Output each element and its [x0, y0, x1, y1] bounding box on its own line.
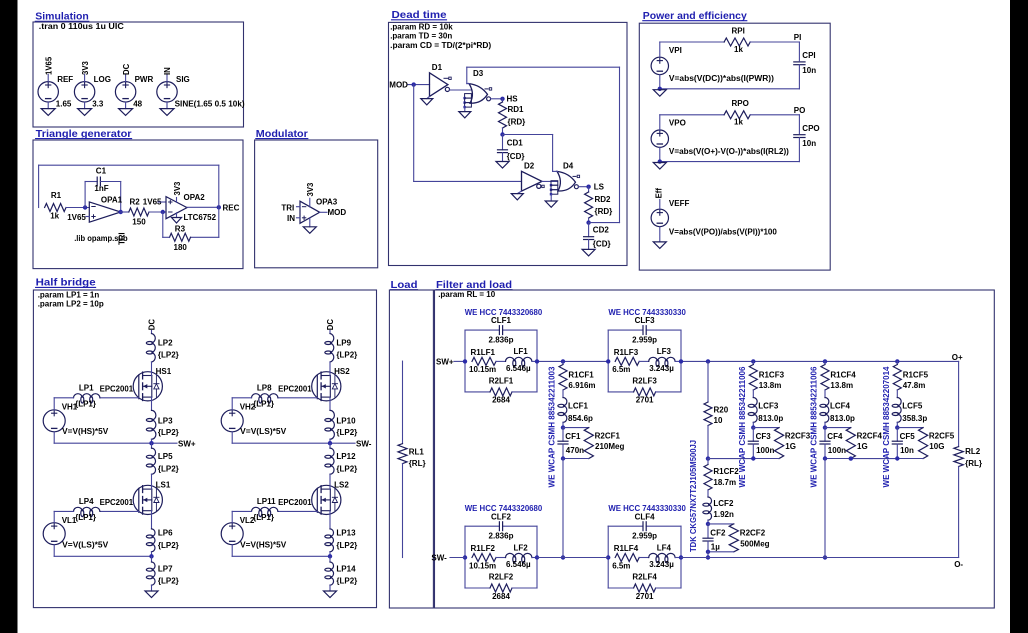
svg-text:VL2: VL2 [240, 516, 255, 525]
part number WE HCC 7443330330 for CLF4 [608, 504, 686, 513]
svg-text:V=abs(V(PO))/abs(V(PI))*100: V=abs(V(PO))/abs(V(PI))*100 [669, 228, 778, 237]
ground of D3 [459, 107, 471, 118]
svg-text:2.836p: 2.836p [489, 336, 514, 345]
svg-text:HS2: HS2 [334, 367, 350, 376]
wire D4 output to LS [578, 186, 588, 188]
directive .param TD [390, 31, 452, 40]
svg-text:.param LP2 = 10p: .param LP2 = 10p [38, 299, 104, 308]
svg-text:10G: 10G [929, 442, 944, 451]
inductor LP12 [325, 443, 358, 485]
inductor LCF5 [892, 390, 927, 423]
directive .param LP2 [38, 299, 104, 308]
node CF5 pair top [895, 422, 923, 430]
svg-text:R3: R3 [175, 225, 186, 234]
svg-text:1.92n: 1.92n [713, 510, 734, 519]
section title Half bridge [36, 278, 96, 289]
part number WE WCAP CSMH 885342207014 at CF5 [882, 366, 891, 488]
svg-text:CLF2: CLF2 [491, 512, 512, 521]
inductor LP1 gate [54, 383, 139, 408]
net label DC rail top [148, 319, 157, 334]
svg-text:VL1: VL1 [62, 516, 77, 525]
svg-text:EPC2001: EPC2001 [100, 385, 134, 394]
directive .param LP1 [38, 291, 100, 300]
box Filter and load [435, 290, 995, 608]
voltage source VEFF [651, 188, 689, 242]
svg-text:PWR: PWR [135, 75, 154, 84]
svg-text:.param RD = 10k: .param RD = 10k [390, 23, 453, 32]
svg-text:854.6p: 854.6p [568, 414, 593, 423]
node CF1 pair bottom [561, 456, 589, 460]
svg-text:RD2: RD2 [595, 195, 612, 204]
svg-text:3.3: 3.3 [92, 100, 104, 109]
wire feedback right rail [467, 67, 620, 222]
svg-text:{LP2}: {LP2} [336, 576, 357, 585]
node mid damper junction [706, 426, 710, 461]
svg-text:.param TD = 30n: .param TD = 30n [390, 31, 452, 40]
net label SW- filter input [431, 554, 465, 563]
wire R3 to OPA2 inverting input [163, 212, 170, 237]
resistor R2LF3 [606, 359, 683, 405]
svg-text:R2LF4: R2LF4 [632, 572, 657, 581]
wire mid node to CF3 leg [708, 458, 753, 460]
svg-text:LTC6752: LTC6752 [184, 213, 217, 222]
svg-text:{RL}: {RL} [409, 459, 426, 468]
nor gate D4 [550, 162, 580, 196]
power net 3V3 of OPA2 [173, 181, 182, 202]
ground of VPO [653, 159, 666, 169]
svg-text:R1CF3: R1CF3 [759, 370, 785, 379]
svg-text:18.7m: 18.7m [713, 478, 736, 487]
svg-text:OPA1: OPA1 [101, 195, 123, 204]
svg-text:3V3: 3V3 [173, 181, 182, 196]
section title Load [391, 280, 418, 291]
svg-text:LP14: LP14 [336, 565, 356, 574]
net label SW- [356, 439, 372, 448]
svg-text:D2: D2 [524, 162, 535, 171]
svg-text:RD1: RD1 [508, 105, 525, 114]
wire VL2 return junction [232, 554, 332, 558]
svg-text:LF3: LF3 [657, 347, 672, 356]
box Simulation [33, 22, 244, 127]
svg-text:IN: IN [163, 67, 172, 75]
resistor RD1 [499, 99, 526, 128]
svg-text:WE WCAP CSMH 885342211006: WE WCAP CSMH 885342211006 [810, 366, 819, 488]
inductor LP2 [146, 334, 179, 363]
voltage source VPI [651, 42, 682, 89]
svg-text:2684: 2684 [492, 396, 510, 405]
inductor LP8 gate [232, 383, 317, 408]
svg-text:LOG: LOG [94, 75, 111, 84]
svg-text:D3: D3 [473, 69, 484, 78]
wire MOD down to D2 [414, 85, 522, 182]
svg-text:EPC2001: EPC2001 [100, 498, 134, 507]
node RD1/CD1 junction [500, 128, 504, 137]
part number TDK CKG57NX7T2J105M500JJ [689, 440, 698, 552]
inductor LP6 [146, 515, 179, 557]
box Power and efficiency [639, 23, 830, 270]
svg-text:LP8: LP8 [257, 383, 272, 392]
svg-text:LP2: LP2 [158, 338, 173, 347]
wire feedback to R3 [191, 207, 219, 237]
op-amp OPA1 [89, 195, 122, 222]
svg-text:R20: R20 [714, 406, 729, 415]
svg-text:{LP1}: {LP1} [75, 399, 96, 408]
net label 1V65 at OPA1 + [67, 213, 89, 222]
svg-text:R2LF3: R2LF3 [632, 376, 657, 385]
svg-text:V=V(LS)*5V: V=V(LS)*5V [240, 427, 287, 436]
section title Simulation [35, 12, 89, 23]
svg-text:SW+: SW+ [178, 439, 196, 448]
resistor R2CF2 [729, 524, 769, 552]
svg-text:SIG: SIG [176, 75, 190, 84]
svg-text:CF2: CF2 [710, 528, 726, 537]
nor gate D3 [463, 69, 491, 108]
section title Modulator [256, 129, 308, 140]
wire feedback loop top [39, 165, 219, 207]
svg-text:DC: DC [148, 319, 157, 331]
svg-text:1V65: 1V65 [44, 56, 53, 75]
svg-text:LP11: LP11 [257, 497, 276, 506]
part number WE WCAP CSMH 885342211006 at CF3 [738, 366, 747, 488]
svg-text:LP9: LP9 [336, 338, 351, 347]
resistor R3 [170, 225, 191, 253]
inductor LCF4 [820, 390, 855, 423]
capacitor CLF4 [608, 512, 681, 557]
svg-text:LP12: LP12 [336, 452, 356, 461]
svg-text:MOD: MOD [389, 81, 408, 90]
svg-text:R2CF3: R2CF3 [785, 432, 811, 441]
wire R1 to OPA1 inverting input [66, 207, 89, 209]
svg-text:R1LF4: R1LF4 [614, 544, 639, 553]
svg-text:R2CF1: R2CF1 [595, 432, 621, 441]
svg-text:10n: 10n [900, 446, 914, 455]
svg-text:2701: 2701 [636, 396, 654, 405]
wire junction down into D4 [553, 170, 558, 172]
inductor LF3 [639, 347, 681, 373]
svg-text:VH2: VH2 [240, 403, 256, 412]
svg-text:CLF1: CLF1 [491, 316, 512, 325]
wire junction to D4 input [503, 135, 553, 172]
node LS [586, 183, 604, 192]
net label PO [794, 106, 806, 115]
section title Power and efficiency [643, 11, 747, 22]
net label REC [223, 203, 240, 212]
transistor HS2 EPC2001 [278, 367, 350, 401]
svg-text:REF: REF [57, 75, 73, 84]
svg-text:{CD}: {CD} [507, 152, 525, 161]
svg-text:210Meg: 210Meg [595, 442, 624, 451]
net label TRI at OPA3 - [281, 204, 300, 213]
behavioral text VL2 [240, 541, 287, 550]
inductor LF1 [496, 347, 537, 373]
transistor LS1 EPC2001 [100, 481, 171, 515]
wire SW+ node [54, 441, 177, 445]
svg-text:1G: 1G [857, 442, 868, 451]
net label MOD input [389, 81, 429, 90]
node MOD junction [412, 82, 416, 86]
svg-text:LP7: LP7 [158, 565, 173, 574]
svg-text:{LP2}: {LP2} [336, 428, 357, 437]
wire OPA2 output to REC node [187, 206, 219, 208]
resistor R1LF1 [469, 348, 496, 374]
wire bottom return VPO [660, 161, 800, 163]
svg-text:LS: LS [594, 183, 605, 192]
capacitor CF5 [892, 428, 915, 459]
inductor LP11 gate [232, 497, 317, 522]
svg-text:VH1: VH1 [62, 403, 78, 412]
inductor LP4 gate [54, 497, 139, 522]
svg-text:LP3: LP3 [158, 417, 173, 426]
svg-text:VPI: VPI [669, 46, 682, 55]
box Load [389, 290, 433, 608]
section title Filter and load [436, 280, 512, 291]
wire R2 to OPA2 [149, 211, 166, 213]
svg-text:2.959p: 2.959p [632, 336, 657, 345]
svg-text:SINE(1.65 0.5 10k): SINE(1.65 0.5 10k) [175, 100, 245, 109]
svg-text:V=abs(V(DC))*abs(I(PWR)): V=abs(V(DC))*abs(I(PWR)) [669, 74, 774, 83]
svg-text:OPA3: OPA3 [316, 198, 338, 207]
svg-text:R1LF2: R1LF2 [471, 544, 496, 553]
net label MOD output [320, 208, 347, 217]
svg-text:LCF4: LCF4 [830, 401, 851, 410]
svg-text:TRI: TRI [281, 204, 294, 213]
svg-text:C1: C1 [96, 166, 107, 175]
svg-text:{LP2}: {LP2} [158, 351, 179, 360]
svg-text:HS: HS [507, 94, 519, 103]
node HS [500, 94, 518, 103]
box Half bridge [33, 290, 376, 608]
svg-text:CLF3: CLF3 [635, 316, 656, 325]
box Triangle generator [33, 140, 243, 269]
svg-text:LCF2: LCF2 [713, 499, 734, 508]
svg-text:REC: REC [223, 203, 240, 212]
svg-text:3V3: 3V3 [306, 182, 315, 197]
part number WE HCC 7443320680 for CLF1 [465, 308, 543, 317]
svg-text:100n: 100n [828, 446, 846, 455]
svg-text:D1: D1 [432, 63, 443, 72]
wire mid segment CF4 to CF5 [849, 456, 898, 460]
svg-text:LS2: LS2 [334, 481, 349, 490]
svg-text:{LP1}: {LP1} [75, 513, 96, 522]
node CF2 pair top [706, 520, 734, 526]
inductor LP7 [146, 556, 179, 585]
svg-text:150: 150 [132, 218, 146, 227]
capacitor CD2 [584, 223, 611, 250]
wire top rail [537, 360, 959, 362]
svg-text:EPC2001: EPC2001 [278, 498, 312, 507]
node CF1 pair top [561, 422, 589, 430]
voltage source VH2 [221, 398, 256, 443]
svg-text:{CD}: {CD} [593, 240, 611, 249]
svg-text:LCF3: LCF3 [758, 401, 779, 410]
svg-text:CF3: CF3 [756, 432, 772, 441]
svg-text:1V65: 1V65 [67, 213, 86, 222]
svg-text:IN: IN [287, 214, 295, 223]
svg-text:CF1: CF1 [565, 432, 581, 441]
svg-text:WE WCAP CSMH 885342211003: WE WCAP CSMH 885342211003 [548, 366, 557, 488]
wire D2 output to D4 [542, 180, 558, 182]
net label 1V65 at OPA2 + [143, 198, 166, 207]
ground of LP7 rail [145, 585, 158, 598]
inverter D1 [430, 63, 452, 96]
resistor R2 [129, 198, 149, 227]
capacitor CF3 [748, 428, 774, 459]
resistor R1CF2 [704, 459, 739, 490]
resistor RL1 [398, 361, 426, 557]
net label SW+ filter input [436, 358, 465, 367]
inverter buffer D2 [522, 162, 545, 192]
ground of D2 [511, 191, 523, 200]
svg-text:470n: 470n [566, 446, 584, 455]
svg-text:EPC2001: EPC2001 [278, 385, 312, 394]
svg-text:LP1: LP1 [79, 383, 94, 392]
svg-text:6.5m: 6.5m [612, 561, 630, 570]
wire bottom rail [537, 557, 959, 559]
svg-text:.param RL = 10: .param RL = 10 [438, 290, 496, 299]
svg-text:{RD}: {RD} [595, 207, 613, 216]
box Modulator [255, 140, 378, 268]
svg-text:PI: PI [794, 33, 802, 42]
op-amp OPA3 [300, 198, 338, 224]
directive .lib opamp.sub [74, 234, 128, 243]
svg-text:6.546µ: 6.546µ [506, 364, 531, 373]
resistor R1 [45, 191, 66, 221]
svg-text:6.5m: 6.5m [612, 365, 630, 374]
svg-text:SW-: SW- [431, 554, 447, 563]
svg-text:SW-: SW- [356, 439, 372, 448]
svg-text:CD2: CD2 [593, 226, 610, 235]
capacitor CLF3 [608, 316, 681, 361]
part number WE WCAP CSMH 885342211006 at CF4 [810, 366, 819, 488]
svg-text:CPO: CPO [802, 124, 819, 133]
node CF5 pair bottom [895, 456, 923, 460]
svg-text:Eff: Eff [655, 188, 664, 199]
svg-text:VEFF: VEFF [669, 199, 690, 208]
wire bottom return VPI [660, 88, 800, 90]
svg-text:{LP2}: {LP2} [336, 541, 357, 550]
svg-text:48: 48 [133, 100, 142, 109]
behavioral text VH2 [240, 427, 287, 436]
svg-text:CF4: CF4 [827, 432, 843, 441]
svg-text:1k: 1k [50, 212, 59, 221]
svg-text:LF4: LF4 [657, 543, 672, 552]
capacitor CF1 [558, 428, 584, 459]
resistor R2CF4 [846, 428, 882, 459]
ground of VPI [653, 87, 666, 97]
svg-text:1k: 1k [734, 118, 743, 127]
svg-text:LCF1: LCF1 [568, 401, 589, 410]
node CF4 pair top [823, 422, 851, 430]
svg-text:10n: 10n [802, 66, 816, 75]
resistor R1CF5 [893, 361, 928, 390]
svg-text:V=V(LS)*5V: V=V(LS)*5V [62, 541, 109, 550]
behavioral voltage text VEFF [669, 228, 778, 237]
resistor RPI [660, 26, 800, 54]
wire VL1 return junction [54, 554, 154, 558]
svg-text:.tran 0 110us 1u UIC: .tran 0 110us 1u UIC [39, 22, 124, 31]
wire D1 output to D3 [450, 89, 473, 91]
svg-text:V=abs(V(O+)-V(O-))*abs(I(RL2)): V=abs(V(O+)-V(O-))*abs(I(RL2)) [669, 147, 789, 156]
node CF4 pair bottom [823, 456, 851, 460]
svg-text:V=V(HS)*5V: V=V(HS)*5V [62, 427, 109, 436]
svg-text:PO: PO [794, 106, 806, 115]
resistor R1CF3 [749, 361, 784, 390]
net label IN at OPA3 + [287, 214, 300, 223]
wire SW- node [232, 441, 355, 445]
svg-text:LP5: LP5 [158, 452, 173, 461]
svg-text:10: 10 [714, 416, 723, 425]
resistor R1LF2 [469, 544, 496, 570]
svg-text:.param LP1 = 1n: .param LP1 = 1n [38, 291, 100, 300]
node inverting input junction [83, 205, 87, 209]
resistor R1CF1 [559, 361, 596, 390]
voltage source VL2 [221, 511, 255, 556]
svg-text:1nF: 1nF [94, 184, 108, 193]
svg-text:13.8m: 13.8m [830, 381, 853, 390]
directive .param CD [390, 41, 491, 50]
wire CF1 leg to bottom rail [562, 459, 564, 558]
ground of D4 [545, 194, 557, 207]
node CF1 leg on rails [561, 359, 565, 560]
svg-text:SW+: SW+ [436, 358, 454, 367]
node RD2/CD2 junction [586, 218, 590, 225]
node CF5 leg top [895, 359, 899, 363]
svg-text:R2CF4: R2CF4 [857, 432, 883, 441]
svg-text:R1CF5: R1CF5 [903, 370, 929, 379]
ground of LP14 rail [324, 585, 337, 598]
op-amp OPA2 LTC6752 [166, 193, 217, 222]
ground of D1 [421, 96, 433, 105]
svg-text:100n: 100n [756, 446, 774, 455]
svg-text:{RL}: {RL} [965, 459, 982, 468]
voltage source PWR [115, 63, 153, 115]
behavioral voltage text VPI [669, 74, 774, 83]
svg-text:R2CF5: R2CF5 [929, 432, 955, 441]
svg-text:R2: R2 [130, 198, 141, 207]
svg-text:R1: R1 [51, 191, 62, 200]
svg-text:2.836p: 2.836p [489, 532, 514, 541]
wire D3 output to HS [491, 98, 503, 100]
ground of OPA3 [303, 218, 316, 234]
svg-text:10.15m: 10.15m [469, 561, 496, 570]
svg-text:R2LF2: R2LF2 [489, 572, 514, 581]
net label O+ [952, 353, 963, 447]
voltage source VH1 [43, 398, 78, 443]
svg-text:DC: DC [326, 319, 335, 331]
transistor HS1 EPC2001 [100, 367, 172, 401]
resistor R2CF3 [775, 428, 811, 459]
resistor R1CF4 [821, 361, 856, 390]
node CF2 pair bottom [706, 550, 734, 560]
svg-text:6.546µ: 6.546µ [506, 560, 531, 569]
ground of OPA2 [172, 213, 182, 223]
svg-text:180: 180 [174, 243, 188, 252]
svg-text:RPI: RPI [732, 26, 745, 35]
svg-text:LP6: LP6 [158, 528, 173, 537]
inductor LF4 [639, 543, 681, 569]
ground of VEFF [653, 242, 666, 249]
node OPA1 output [119, 210, 123, 214]
svg-text:{LP2}: {LP2} [158, 541, 179, 550]
capacitor CLF1 [465, 316, 537, 361]
inductor LCF3 [748, 390, 783, 423]
svg-text:CPI: CPI [802, 51, 815, 60]
svg-text:10n: 10n [802, 139, 816, 148]
wire top feedback into D3 [467, 67, 470, 83]
svg-text:{LP1}: {LP1} [253, 399, 274, 408]
inductor LP9 [325, 334, 358, 363]
node CF3 pair bottom [751, 456, 779, 460]
